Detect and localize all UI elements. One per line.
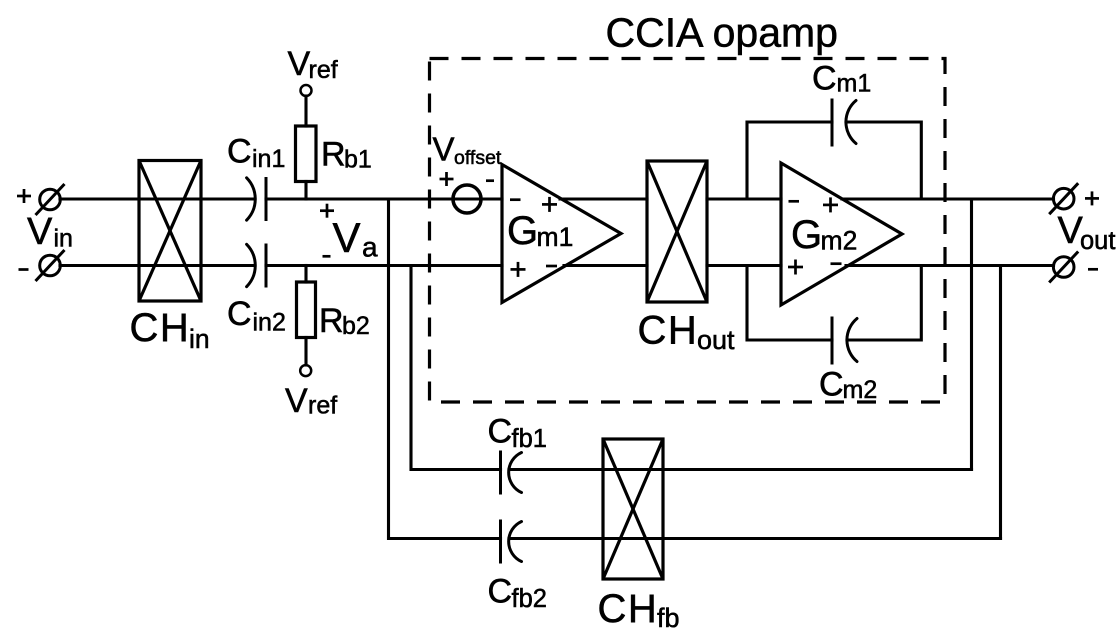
svg-text:m2: m2	[843, 376, 878, 404]
minus mark Gm2 bottom-right	[831, 262, 842, 265]
terminal Vin+	[40, 189, 61, 210]
resistor R_b2 body	[297, 282, 316, 338]
resistor R_b1 body	[296, 126, 317, 182]
svg-text:ref: ref	[309, 56, 338, 84]
svg-text:C: C	[227, 295, 252, 333]
plus mark Vin+	[17, 195, 31, 198]
wire Gm1 out top to CHout	[560, 197, 647, 200]
svg-text:V: V	[27, 211, 53, 253]
resistor R_b1 lead bottom	[304, 182, 307, 200]
svg-text:R: R	[319, 302, 344, 340]
wire CHout to Gm2 bottom	[707, 264, 781, 267]
svg-text:C: C	[227, 133, 252, 171]
svg-text:V: V	[288, 45, 311, 83]
svg-text:R: R	[321, 136, 346, 174]
svg-text:in1: in1	[252, 145, 285, 173]
svg-text:m2: m2	[821, 226, 858, 256]
resistor R_b1 lead top	[304, 96, 307, 126]
terminal Vin-	[40, 255, 61, 276]
terminal V_ref bottom circle	[300, 365, 311, 376]
node Va+ feedback vertical (to Cfb2 row)	[389, 199, 501, 539]
capacitor C_m1	[831, 99, 834, 147]
svg-text:C: C	[819, 366, 844, 404]
chopper CH_out box	[647, 161, 707, 302]
wire bottom: Cin2 to Gm1	[266, 264, 502, 267]
node Va- feedback vertical (to Cfb1 row)	[411, 266, 501, 470]
op-amp Gm1 triangle	[502, 165, 621, 303]
svg-text:in: in	[189, 324, 210, 354]
svg-text:G: G	[791, 213, 822, 257]
svg-text:ref: ref	[308, 392, 337, 420]
svg-text:CCIA opamp: CCIA opamp	[606, 9, 838, 55]
svg-text:fb2: fb2	[512, 585, 547, 613]
capacitor C_in2	[247, 244, 256, 286]
wire Gm1 out bottom to CHout	[564, 264, 647, 267]
wire Cm2 right branch	[847, 266, 921, 341]
svg-text:offset: offset	[454, 147, 502, 169]
svg-text:out: out	[697, 325, 735, 355]
capacitor C_fb2	[499, 520, 502, 564]
wire Cm2 left branch	[747, 266, 832, 341]
svg-text:G: G	[507, 209, 538, 253]
plus mark Gm2 bottom-left	[788, 266, 803, 269]
svg-text:CH: CH	[598, 587, 659, 631]
wire bottom input: Vin- to Cin2	[60, 264, 255, 267]
wire Vout- feedback vertical	[999, 266, 1002, 539]
svg-text:C: C	[812, 60, 837, 98]
minus mark Gm1 top-left	[510, 198, 521, 201]
svg-text:fb1: fb1	[512, 425, 547, 453]
chopper CH_in box	[139, 161, 201, 302]
svg-text:V: V	[333, 214, 361, 261]
terminal V_ref top circle	[301, 85, 312, 96]
svg-text:m1: m1	[837, 70, 872, 98]
minus mark Va	[323, 255, 331, 258]
dashed box CCIA opamp	[430, 59, 946, 403]
source V_offset circle	[453, 185, 481, 213]
svg-text:b2: b2	[342, 312, 370, 340]
wire Vout+ feedback vertical	[970, 199, 973, 470]
svg-text:C: C	[488, 412, 513, 450]
plus mark Gm2 top-right	[823, 204, 838, 207]
svg-text:in2: in2	[253, 309, 286, 337]
capacitor C_m2	[831, 317, 834, 365]
svg-text:V: V	[285, 382, 308, 420]
svg-text:C: C	[488, 572, 513, 610]
wire top: Cin1 to Gm1	[266, 197, 502, 200]
terminal Vout-	[1053, 257, 1074, 278]
svg-text:m1: m1	[537, 222, 574, 252]
wire top input: Vin+ to Cin1	[60, 197, 255, 200]
plus mark Gm1 bottom-left	[511, 268, 526, 271]
wire CHout to Gm2 top	[707, 197, 781, 200]
minus mark Vout-	[1088, 268, 1098, 271]
capacitor C_fb1	[499, 451, 502, 495]
svg-text:CH: CH	[638, 309, 699, 353]
op-amp Gm2 triangle	[781, 163, 902, 305]
svg-text:out: out	[1080, 227, 1115, 255]
capacitor C_in1	[247, 178, 256, 220]
plus mark Vout+	[1085, 197, 1099, 200]
wire Cm1 right branch	[846, 122, 921, 199]
plus mark Va	[320, 209, 334, 212]
svg-text:V: V	[433, 131, 455, 168]
minus mark Gm1 bottom-right	[546, 265, 557, 268]
minus mark Voffset	[486, 179, 494, 182]
minus mark Vin-	[19, 268, 29, 271]
wire Cfb1 row right	[509, 468, 972, 471]
svg-text:b1: b1	[344, 146, 372, 174]
svg-text:a: a	[362, 232, 378, 263]
svg-text:in: in	[54, 225, 73, 253]
terminal Vout+	[1053, 188, 1074, 209]
chopper CH_fb box	[603, 439, 663, 579]
plus mark Voffset	[440, 178, 454, 181]
minus mark Gm2 top-left	[789, 200, 800, 203]
svg-text:fb: fb	[657, 603, 680, 633]
wire Cfb2 row right	[509, 537, 1001, 540]
resistor R_b2 lead top	[304, 266, 307, 283]
wire Gm2 out bottom to Vout-	[846, 264, 1054, 267]
wire Cm1 left branch	[747, 122, 832, 199]
wire Gm2 out top to Vout+	[842, 197, 1054, 200]
resistor R_b2 lead bottom	[304, 338, 307, 366]
svg-text:CH: CH	[130, 306, 191, 350]
plus mark Gm1 top-right	[542, 203, 557, 206]
